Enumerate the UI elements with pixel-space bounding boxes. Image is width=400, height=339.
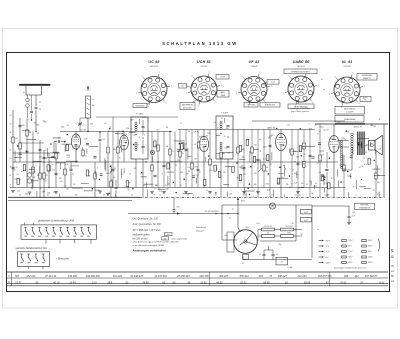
svg-text:30: 30 xyxy=(53,192,55,194)
svg-text:C: C xyxy=(8,276,10,278)
IF coil L3 xyxy=(135,142,137,144)
resistor R5 xyxy=(48,165,50,171)
svg-text:52 62: 52 62 xyxy=(240,281,247,284)
svg-text:a: a xyxy=(10,141,11,143)
svg-text:4: 4 xyxy=(341,107,342,109)
svg-text:70 42: 70 42 xyxy=(340,281,347,284)
ground xyxy=(256,191,260,193)
wire xyxy=(32,132,34,188)
wire column 304 xyxy=(303,130,305,188)
svg-text:3: 3 xyxy=(312,102,313,104)
fuse Si2 xyxy=(301,218,312,222)
svg-text:5k: 5k xyxy=(10,167,12,169)
svg-text:g2: g2 xyxy=(323,89,325,91)
svg-text:UABC 80: UABC 80 xyxy=(267,127,276,130)
svg-text:0,25: 0,25 xyxy=(370,125,373,127)
capacitor C18 xyxy=(257,158,260,160)
wire link xyxy=(13,152,60,154)
wire bottom supply xyxy=(243,259,312,261)
svg-text:4,7n: 4,7n xyxy=(52,169,55,172)
svg-text:0,1: 0,1 xyxy=(46,175,48,177)
switch contact T1 xyxy=(21,254,23,257)
svg-text:0,1: 0,1 xyxy=(9,115,11,117)
svg-text:0,5: 0,5 xyxy=(104,123,106,125)
svg-text:5: 5 xyxy=(186,92,187,94)
svg-text:C4: C4 xyxy=(166,187,168,190)
capacitor C3 xyxy=(19,124,22,126)
svg-text:2: 2 xyxy=(171,85,172,87)
svg-text:Änderungen vorbehalten: Änderungen vorbehalten xyxy=(132,249,166,253)
svg-text:1,1k: 1,1k xyxy=(290,223,293,225)
switch contact T2 xyxy=(28,254,30,257)
svg-text:3n: 3n xyxy=(283,165,285,167)
svg-text:2: 2 xyxy=(364,86,365,88)
svg-text:8: 8 xyxy=(160,194,161,196)
svg-text:Ch: Ch xyxy=(242,263,244,265)
svg-text:25: 25 xyxy=(270,194,273,196)
svg-text:8: 8 xyxy=(380,194,381,196)
svg-text:Spannungen mit Röhrenvoltm. ge: Spannungen mit Röhrenvoltm. gemessen xyxy=(334,267,366,270)
resistor R9 xyxy=(117,147,119,153)
svg-text:bei 220 V~ auf: bei 220 V~ auf xyxy=(133,238,148,240)
wire xyxy=(311,205,313,258)
note marker box dark xyxy=(162,237,169,240)
oscillator coil L1 xyxy=(86,96,91,118)
legend row 3 resistor b xyxy=(362,251,367,253)
rectifier/motor M1 xyxy=(234,230,258,254)
wire link 2 xyxy=(20,142,44,144)
svg-text:0,1: 0,1 xyxy=(348,176,350,178)
wire xyxy=(260,240,296,242)
svg-text:12: 12 xyxy=(292,169,294,171)
svg-text:Si 0,2: Si 0,2 xyxy=(304,212,308,214)
svg-text:R20: R20 xyxy=(271,135,274,137)
svg-text:ENTSTOERUNG: ENTSTOERUNG xyxy=(344,108,356,110)
antenna trimmer C1 xyxy=(35,106,38,108)
svg-text:50µ: 50µ xyxy=(225,235,228,237)
capacitor C7 xyxy=(57,140,59,143)
resistor R11 xyxy=(157,145,159,151)
wire column 264 xyxy=(263,130,265,188)
wire column 170 xyxy=(169,132,171,188)
ground xyxy=(54,191,58,193)
svg-text:0,1: 0,1 xyxy=(321,79,323,81)
svg-text:0,1: 0,1 xyxy=(232,209,234,211)
svg-text:20: 20 xyxy=(358,167,361,169)
dial lamp La2 xyxy=(269,203,275,209)
resistor R5b xyxy=(55,153,57,159)
svg-text:UF 41: UF 41 xyxy=(249,60,260,64)
svg-text:50: 50 xyxy=(10,175,12,177)
svg-text:C24: C24 xyxy=(39,156,42,159)
svg-text:12: 12 xyxy=(331,177,333,179)
dial lamp La1 xyxy=(150,150,154,154)
svg-text:50k: 50k xyxy=(223,172,226,174)
wire column 198 xyxy=(197,130,199,188)
callout box between UF41/UABC80 xyxy=(267,80,279,85)
svg-text:6: 6 xyxy=(192,75,193,77)
svg-text:20: 20 xyxy=(193,144,196,146)
svg-text:0,1: 0,1 xyxy=(215,194,217,196)
svg-text:UL 41: UL 41 xyxy=(323,129,328,132)
svg-text:1M: 1M xyxy=(318,131,321,133)
svg-text:1M: 1M xyxy=(269,164,272,166)
wire column 192 xyxy=(191,130,193,188)
svg-text:85 V: 85 V xyxy=(348,246,352,248)
tube socket diagram UC 92 xyxy=(141,77,167,103)
svg-text:ZF = 468 kHz / 10,7 kHz: ZF = 468 kHz / 10,7 kHz xyxy=(132,228,162,232)
capacitor C5b xyxy=(55,172,58,174)
svg-text:5k: 5k xyxy=(315,183,317,185)
svg-text:Si: Si xyxy=(229,218,231,220)
svg-text:200p: 200p xyxy=(208,170,213,172)
svg-text:R17: R17 xyxy=(156,129,159,131)
svg-text:4: 4 xyxy=(148,106,149,108)
svg-text:25k: 25k xyxy=(267,137,271,139)
svg-text:200p: 200p xyxy=(24,193,29,195)
svg-text:25 158 403: 25 158 403 xyxy=(176,275,190,278)
svg-text:a: a xyxy=(10,184,11,186)
svg-text:100: 100 xyxy=(243,194,246,196)
svg-text:R20: R20 xyxy=(45,158,48,160)
svg-text:30k: 30k xyxy=(113,149,116,151)
svg-text:0,1: 0,1 xyxy=(243,170,245,172)
svg-text:L2: L2 xyxy=(180,185,182,187)
svg-text:50: 50 xyxy=(289,187,291,189)
svg-text:0,25: 0,25 xyxy=(267,189,270,191)
svg-text:0,1: 0,1 xyxy=(150,152,152,154)
svg-text:5: 5 xyxy=(329,93,330,95)
dropper resistor R24 xyxy=(262,235,275,238)
drawing frame border xyxy=(7,53,390,292)
svg-text:220Ω: 220Ω xyxy=(286,233,292,235)
svg-text:F I 468: F I 468 xyxy=(136,113,143,116)
legend row 4 resistor xyxy=(342,256,347,258)
switch contact S6 xyxy=(60,227,62,230)
svg-text:12: 12 xyxy=(129,173,131,175)
svg-text:C7: C7 xyxy=(154,188,156,190)
svg-text:5: 5 xyxy=(236,93,237,95)
switch contact S10 xyxy=(88,227,90,230)
svg-text:0,1: 0,1 xyxy=(325,183,327,185)
svg-text:AUSG. TR.: AUSG. TR. xyxy=(353,126,363,129)
svg-text:37 314 10: 37 314 10 xyxy=(45,275,57,278)
legend row 1 resistor b xyxy=(362,240,367,242)
electrolytic C24 xyxy=(272,253,275,255)
svg-text:OBEN: OBEN xyxy=(221,95,225,97)
svg-text:Wellenbereich: Wellenbereich xyxy=(196,227,206,229)
svg-text:0,5: 0,5 xyxy=(72,174,74,176)
svg-text:806: 806 xyxy=(164,238,167,240)
svg-text:Stellung M: Stellung M xyxy=(196,230,204,233)
svg-text:100: 100 xyxy=(32,177,35,179)
svg-text:6: 6 xyxy=(142,76,143,78)
svg-text:100: 100 xyxy=(75,194,78,196)
svg-text:8: 8 xyxy=(340,165,341,167)
svg-text:5: 5 xyxy=(283,92,284,94)
svg-text:SKALENSEIL: SKALENSEIL xyxy=(135,104,144,107)
svg-text:GITTERANSCHLUSS SEITL.: GITTERANSCHLUSS SEITL. xyxy=(291,70,311,73)
callout box output lower xyxy=(335,116,364,123)
svg-text:100: 100 xyxy=(196,175,199,177)
resistor R18 xyxy=(291,149,293,155)
selector contacts xyxy=(215,213,216,214)
corner cluster xyxy=(110,181,112,187)
svg-text:23 6: 23 6 xyxy=(91,281,97,284)
svg-text:C15: C15 xyxy=(287,124,290,126)
svg-text:348 227: 348 227 xyxy=(278,275,288,278)
svg-text:Zf: Zf xyxy=(223,136,226,138)
svg-text:246 308: 246 308 xyxy=(199,275,210,278)
svg-text:1k: 1k xyxy=(285,168,287,170)
svg-text:1k: 1k xyxy=(119,157,121,159)
svg-text:0,1: 0,1 xyxy=(28,131,30,133)
svg-text:50: 50 xyxy=(187,194,189,196)
wire links xyxy=(53,137,61,139)
svg-text:R11: R11 xyxy=(254,173,257,175)
ground xyxy=(11,190,15,192)
svg-text:470: 470 xyxy=(180,171,183,174)
resistor R10 xyxy=(151,165,153,171)
resistor R21 xyxy=(343,165,345,171)
svg-text:AUSG.: AUSG. xyxy=(363,96,368,99)
svg-text:R11: R11 xyxy=(319,172,322,174)
svg-text:5k: 5k xyxy=(259,139,261,141)
wire column 298 xyxy=(297,130,299,198)
svg-text:50k: 50k xyxy=(17,190,20,192)
speaker wires xyxy=(351,155,353,170)
svg-text:1M: 1M xyxy=(15,138,18,140)
svg-text:170 V: 170 V xyxy=(348,240,353,242)
svg-text:1M: 1M xyxy=(266,167,269,169)
svg-text:5k: 5k xyxy=(259,150,261,152)
junction xyxy=(145,161,146,162)
svg-text:6 V: 6 V xyxy=(326,257,329,259)
switch position box 1 xyxy=(21,225,97,239)
wire right drop 2 xyxy=(383,124,385,197)
svg-text:C18: C18 xyxy=(130,120,133,122)
resistor R14 xyxy=(191,163,193,169)
supply wire top xyxy=(222,204,312,206)
svg-text:0,1: 0,1 xyxy=(299,194,301,196)
svg-text:0,25: 0,25 xyxy=(76,135,79,137)
capacitor C6 xyxy=(70,168,73,170)
svg-text:8: 8 xyxy=(97,168,98,170)
svg-text:in den Betriebsstellungen 6803: in den Betriebsstellungen 6803Ω xyxy=(133,244,165,247)
svg-text:225 V: 225 V xyxy=(347,262,353,264)
legend row 5 resistor xyxy=(342,262,347,264)
svg-text:Zf: Zf xyxy=(138,137,141,139)
svg-text:1M: 1M xyxy=(254,144,257,146)
svg-text:11 347 401: 11 347 401 xyxy=(155,275,168,278)
IF transformer F2 (can) xyxy=(216,116,233,159)
wire xyxy=(295,205,297,241)
svg-text:5k: 5k xyxy=(21,171,23,173)
capacitor C2 xyxy=(12,166,15,168)
wire column 244 xyxy=(243,130,245,188)
switch contact S4 xyxy=(46,227,48,230)
legend row 2 resistor xyxy=(342,245,347,247)
svg-text:100 V: 100 V xyxy=(348,257,353,259)
antenna coupling wire xyxy=(26,94,42,96)
wire column 180 xyxy=(179,130,181,188)
svg-text:81 448 478: 81 448 478 xyxy=(130,275,143,278)
svg-text:200p: 200p xyxy=(194,167,199,169)
svg-text:5k: 5k xyxy=(295,194,297,196)
svg-text:ZF FILTER: ZF FILTER xyxy=(247,105,255,107)
callout box (UABC 80 above) xyxy=(284,69,317,74)
svg-text:0,5: 0,5 xyxy=(281,177,283,179)
svg-text:0,4: 0,4 xyxy=(92,104,94,107)
svg-text:0,1: 0,1 xyxy=(301,234,303,236)
svg-text:1: 1 xyxy=(209,72,210,74)
svg-text:30µ: 30µ xyxy=(279,244,282,246)
wire cathode V1 xyxy=(75,149,77,162)
parts table tick xyxy=(209,272,211,286)
antenna circle contact xyxy=(26,98,30,102)
svg-text:C24: C24 xyxy=(126,127,129,130)
callout box (UCH 81 right) xyxy=(216,75,229,80)
svg-text:50k: 50k xyxy=(201,136,204,138)
svg-text:25k: 25k xyxy=(206,133,210,135)
svg-text:1k: 1k xyxy=(373,190,375,192)
HT rail segment xyxy=(60,131,172,133)
svg-text:12: 12 xyxy=(192,195,194,197)
svg-text:1: 1 xyxy=(259,72,260,74)
tube socket diagram UCH 81 xyxy=(191,76,217,102)
svg-text:GEGENKOPPL.: GEGENKOPPL. xyxy=(362,75,373,77)
svg-text:100: 100 xyxy=(242,157,245,159)
ground xyxy=(28,191,32,193)
svg-text:UC 92: UC 92 xyxy=(148,60,159,64)
svg-text:Rö 2: Rö 2 xyxy=(256,223,259,225)
svg-text:235 V: 235 V xyxy=(367,262,373,264)
svg-text:R20: R20 xyxy=(309,128,312,130)
svg-text:8: 8 xyxy=(162,174,163,176)
capacitor C19 xyxy=(269,144,272,146)
svg-text:30: 30 xyxy=(37,133,39,135)
svg-text:25k: 25k xyxy=(240,165,244,167)
wire column 175 xyxy=(174,132,176,188)
switch contact S7 xyxy=(67,227,69,230)
svg-text:C12: C12 xyxy=(243,174,246,176)
svg-text:0,1: 0,1 xyxy=(131,194,133,196)
svg-text:44 50: 44 50 xyxy=(216,281,223,284)
svg-text:1: 1 xyxy=(159,72,160,74)
svg-text:R5: R5 xyxy=(188,131,190,133)
svg-text:C15: C15 xyxy=(67,157,70,159)
svg-text:244 280 432: 244 280 432 xyxy=(85,275,101,278)
svg-text:50: 50 xyxy=(39,188,41,190)
wire column 238 xyxy=(237,130,239,188)
svg-text:6: 6 xyxy=(289,75,290,77)
callout box Skalenseil (UC 92) xyxy=(133,103,147,107)
capacitor C4 xyxy=(43,156,46,158)
svg-text:R3: R3 xyxy=(108,131,110,133)
callout box (UL 41 right upper) xyxy=(357,74,377,81)
svg-text:30: 30 xyxy=(221,118,223,120)
resistor R4 xyxy=(43,173,45,179)
svg-text:86 80: 86 80 xyxy=(263,281,270,284)
wire xyxy=(264,249,273,251)
svg-text:C9: C9 xyxy=(45,150,47,152)
wire xyxy=(55,143,57,188)
svg-text:(nicht ausgedruckt): (nicht ausgedruckt) xyxy=(172,237,188,240)
svg-text:12 V: 12 V xyxy=(325,246,329,248)
svg-text:6: 6 xyxy=(335,76,336,78)
tube socket diagram UF 41 xyxy=(241,77,267,103)
wire anode V2 xyxy=(123,132,125,136)
svg-text:0,5: 0,5 xyxy=(188,171,190,173)
svg-text:Obt. Quernotiz: Str. 236: Obt. Quernotiz: Str. 236 xyxy=(133,218,159,221)
svg-text:R17: R17 xyxy=(194,158,197,160)
switch contact S2 xyxy=(32,227,34,230)
svg-text:200p: 200p xyxy=(60,126,65,128)
callout box output upper xyxy=(335,107,365,115)
wire anode V3 xyxy=(203,130,205,137)
svg-text:1k: 1k xyxy=(353,187,355,189)
resistor R20 xyxy=(319,155,321,161)
svg-text:TONABNEHMER: TONABNEHMER xyxy=(344,118,357,121)
svg-text:C4: C4 xyxy=(225,147,227,150)
svg-text:4,7n: 4,7n xyxy=(364,163,367,166)
capacitor C22 xyxy=(326,168,329,170)
svg-text:25k: 25k xyxy=(36,175,40,177)
svg-text:UCH 81: UCH 81 xyxy=(197,60,211,64)
legend row 3 arrow xyxy=(319,251,323,253)
svg-text:50: 50 xyxy=(327,194,329,196)
secondary bus xyxy=(10,187,345,189)
svg-text:gezeichnete Schalterstellung:: gezeichnete Schalterstellung: UKW xyxy=(38,220,75,223)
mains selector wire xyxy=(128,213,238,215)
IF coil L5 xyxy=(220,142,222,144)
wire xyxy=(79,118,81,132)
wire column 258 xyxy=(257,130,259,198)
svg-text:C7: C7 xyxy=(308,124,310,126)
ferrite antenna bar xyxy=(20,84,50,86)
svg-text:R8: R8 xyxy=(166,127,168,129)
svg-text:L2: L2 xyxy=(180,122,182,124)
svg-text:701 227: 701 227 xyxy=(200,66,208,68)
anode rail right xyxy=(315,123,388,125)
svg-text:136 286: 136 286 xyxy=(68,275,78,278)
parts table divider xyxy=(11,272,13,286)
svg-text:0,1: 0,1 xyxy=(306,184,308,186)
svg-text:75 V: 75 V xyxy=(326,251,330,253)
svg-text:Amtl. Quernotizen: Nr. 236: Amtl. Quernotizen: Nr. 236 xyxy=(132,223,162,226)
resistor R6 xyxy=(64,169,66,175)
svg-text:30: 30 xyxy=(121,174,123,176)
svg-text:F II 468: F II 468 xyxy=(221,112,229,115)
svg-text:Meßwerte gelten: Meßwerte gelten xyxy=(133,234,151,237)
svg-text:5: 5 xyxy=(356,194,357,196)
resistor R19 xyxy=(303,143,305,149)
callout box mains xyxy=(355,203,375,209)
svg-text:470: 470 xyxy=(230,193,233,196)
wire cathode V2 xyxy=(123,150,125,162)
svg-text:UC 92: UC 92 xyxy=(80,130,87,132)
svg-text:R17: R17 xyxy=(33,172,36,174)
svg-text:100: 100 xyxy=(311,193,314,195)
svg-text:ABSCHIRMUNG: ABSCHIRMUNG xyxy=(182,103,194,106)
capacitor C11 xyxy=(154,174,157,176)
callout box (UL 41 right lower) xyxy=(360,97,371,102)
resistor R22 xyxy=(375,173,377,179)
svg-text:0,65 V: 0,65 V xyxy=(326,262,332,264)
legend row 5 arrow xyxy=(319,262,323,264)
resistor R2b xyxy=(26,130,28,136)
svg-text:0,25: 0,25 xyxy=(294,182,297,184)
